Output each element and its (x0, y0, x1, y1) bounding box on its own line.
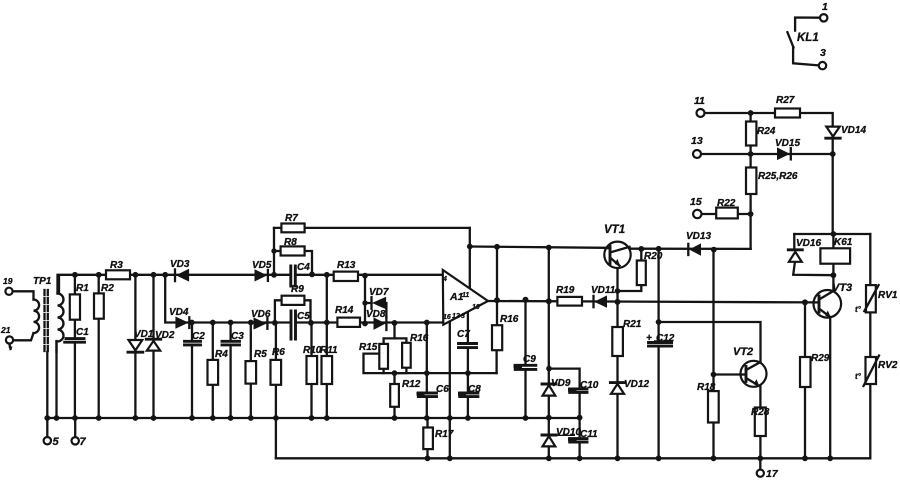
svg-text:t°: t° (855, 305, 862, 314)
svg-text:VD10: VD10 (556, 427, 581, 438)
svg-text:R20: R20 (644, 251, 663, 262)
svg-text:R18: R18 (697, 382, 716, 393)
svg-text:t°: t° (855, 372, 862, 381)
svg-text:R28: R28 (751, 407, 770, 418)
svg-text:VD2: VD2 (155, 330, 175, 341)
svg-text:5: 5 (53, 436, 60, 448)
svg-text:TP1: TP1 (33, 276, 52, 287)
svg-text:R8: R8 (284, 237, 297, 248)
svg-text:RV1: RV1 (878, 290, 898, 301)
svg-text:21: 21 (0, 325, 11, 335)
svg-text:VD11: VD11 (591, 285, 616, 296)
svg-text:C2: C2 (192, 331, 205, 342)
svg-text:C8: C8 (468, 384, 481, 395)
svg-text:R10: R10 (303, 345, 322, 356)
svg-text:R5: R5 (254, 349, 267, 360)
svg-text:C10: C10 (580, 380, 599, 391)
svg-text:R25,R26: R25,R26 (758, 171, 798, 182)
svg-text:VD16: VD16 (796, 238, 821, 249)
svg-text:3: 3 (461, 313, 465, 320)
svg-text:C7: C7 (457, 329, 470, 340)
svg-text:RV2: RV2 (878, 360, 898, 371)
svg-text:13: 13 (691, 135, 703, 147)
svg-text:R17: R17 (435, 429, 454, 440)
svg-text:R24: R24 (757, 126, 776, 137)
svg-text:VD5: VD5 (252, 260, 272, 271)
svg-text:VT3: VT3 (832, 282, 852, 294)
svg-text:10: 10 (472, 304, 480, 311)
svg-text:VD1: VD1 (134, 329, 154, 340)
svg-text:VD8: VD8 (366, 309, 386, 320)
svg-text:R9: R9 (291, 284, 304, 295)
svg-text:KL1: KL1 (797, 32, 819, 44)
svg-text:K61: K61 (834, 237, 853, 248)
svg-text:VD9: VD9 (551, 378, 571, 389)
svg-text:VD6: VD6 (251, 309, 271, 320)
svg-text:R11: R11 (320, 345, 338, 356)
svg-text:1: 1 (822, 1, 828, 13)
svg-text:R16: R16 (500, 314, 519, 325)
svg-text:R29: R29 (811, 353, 830, 364)
svg-text:VD7: VD7 (369, 287, 389, 298)
svg-text:R27: R27 (776, 95, 795, 106)
svg-text:12: 12 (452, 313, 460, 320)
svg-text:11: 11 (462, 292, 469, 299)
svg-text:17: 17 (766, 468, 779, 480)
svg-text:16: 16 (443, 314, 451, 321)
svg-text:19: 19 (3, 276, 13, 286)
svg-text:C12: C12 (656, 333, 675, 344)
svg-text:R12: R12 (402, 379, 421, 390)
svg-text:R22: R22 (717, 198, 736, 209)
svg-text:VT1: VT1 (604, 224, 625, 236)
svg-text:R15: R15 (359, 342, 378, 353)
svg-text:+: + (646, 333, 652, 344)
svg-text:VD14: VD14 (841, 125, 866, 136)
svg-text:R14: R14 (335, 305, 354, 316)
svg-text:R16: R16 (410, 333, 429, 344)
svg-text:R2: R2 (101, 283, 114, 294)
svg-text:C9: C9 (523, 354, 536, 365)
svg-text:C5: C5 (297, 311, 310, 322)
svg-text:4: 4 (442, 276, 447, 283)
svg-text:VD4: VD4 (169, 307, 189, 318)
svg-text:VT2: VT2 (733, 346, 753, 358)
svg-text:3: 3 (820, 47, 826, 59)
svg-text:VD13: VD13 (686, 231, 711, 242)
svg-text:C4: C4 (297, 262, 310, 273)
svg-text:VD3: VD3 (170, 259, 190, 270)
svg-text:R21: R21 (623, 319, 642, 330)
svg-text:R1: R1 (76, 283, 89, 294)
svg-text:R4: R4 (215, 349, 228, 360)
svg-text:R19: R19 (556, 285, 575, 296)
svg-text:C1: C1 (76, 327, 89, 338)
svg-text:11: 11 (694, 95, 705, 107)
svg-text:C6: C6 (436, 384, 449, 395)
svg-text:15: 15 (690, 196, 702, 208)
svg-text:R7: R7 (285, 213, 298, 224)
svg-text:R13: R13 (337, 260, 356, 271)
svg-text:VD15: VD15 (775, 138, 800, 149)
svg-text:R6: R6 (272, 347, 285, 358)
svg-text:C3: C3 (231, 331, 244, 342)
svg-text:R3: R3 (110, 260, 123, 271)
svg-text:7: 7 (80, 436, 87, 448)
svg-text:C11: C11 (580, 429, 598, 440)
svg-text:VD12: VD12 (624, 379, 649, 390)
